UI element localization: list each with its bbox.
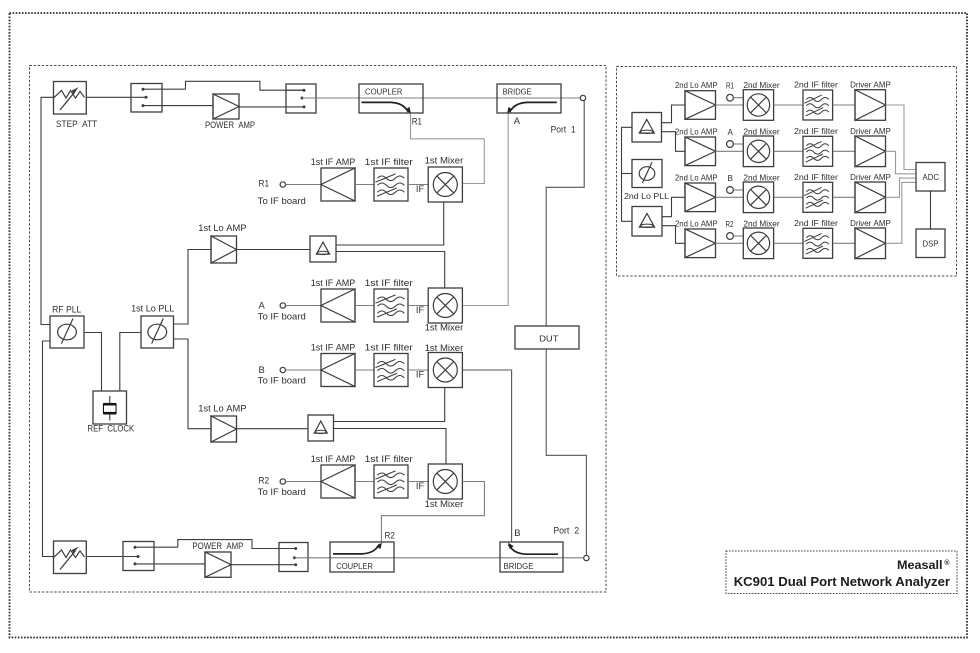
mixer 1st Mixer (A) — [428, 288, 462, 323]
switch SW1 (top, after STEP ATT) — [131, 84, 162, 113]
wire top splitter to 2nd Lo AMP R1 — [662, 105, 686, 123]
svg-text:1st Mixer: 1st Mixer — [425, 155, 464, 166]
node R1 IF output terminal — [280, 182, 285, 187]
switch SW4 (bottom, before coupler) — [279, 543, 308, 572]
amplifier 1st IF AMP (B) — [321, 354, 355, 387]
mixer 2nd Mixer (R1) — [743, 90, 773, 121]
wire top splitter to 2nd Lo AMP A — [662, 132, 686, 152]
svg-text:To IF board: To IF board — [258, 311, 306, 322]
svg-text:2nd Mixer: 2nd Mixer — [743, 219, 779, 228]
wire 1st IF filter to 1st Mixer (R2) — [408, 481, 428, 483]
svg-text:1st IF filter: 1st IF filter — [365, 453, 413, 464]
amplifier 2nd Lo AMP (R2) — [685, 229, 716, 258]
svg-text:R2: R2 — [385, 529, 395, 540]
mixer 1st Mixer (B) — [428, 353, 462, 388]
svg-text:R1: R1 — [259, 178, 270, 189]
wire 1st IF AMP to 1st IF filter (B) — [355, 369, 374, 371]
svg-text:2nd Lo AMP: 2nd Lo AMP — [675, 81, 718, 90]
mixer 2nd Mixer (A) — [743, 136, 773, 167]
wire STEP ATT to switch SW1 — [86, 96, 146, 98]
wire R1 tap to 1st mixer R1 — [411, 114, 485, 184]
wire bottom splitter to 2nd Lo AMP B — [662, 197, 685, 216]
wire R2 terminal into 2nd Mixer — [734, 235, 744, 237]
splitter 2nd LO (top) — [632, 113, 662, 143]
wire A terminal to 1st IF AMP — [286, 305, 321, 307]
node R2 IF output terminal — [280, 479, 285, 484]
wire splitter to R1 mixer LO — [336, 202, 444, 245]
svg-text:2nd IF filter: 2nd IF filter — [794, 127, 838, 136]
node B input terminal (2nd IF) — [727, 187, 734, 194]
RF board dashed enclosure (left) — [30, 66, 607, 593]
coupler (top) — [359, 84, 423, 113]
wire B terminal to 1st IF AMP — [286, 369, 321, 371]
wire 1st Lo AMP to splitter (bottom) — [237, 428, 309, 430]
svg-text:1st IF AMP: 1st IF AMP — [311, 342, 356, 353]
wire ADC to DSP — [930, 191, 932, 229]
wire 2nd Lo AMP to 2nd Mixer (B) — [716, 196, 744, 198]
wire R1 terminal into 2nd Mixer — [734, 97, 744, 99]
svg-text:Driver AMP: Driver AMP — [850, 127, 891, 136]
switch SW3 (bottom) — [123, 542, 154, 571]
wire SW3 bypass over bottom POWER AMP — [178, 540, 296, 549]
wire 1st IF AMP to 1st IF filter (R1) — [355, 184, 374, 186]
svg-text:2nd Mixer: 2nd Mixer — [743, 127, 779, 136]
svg-text:COUPLER: COUPLER — [336, 562, 373, 571]
svg-text:IF: IF — [416, 184, 425, 194]
svg-text:To IF board: To IF board — [258, 486, 306, 497]
svg-text:Measall: Measall — [897, 558, 943, 572]
wire STEP ATT input from RF PLL (left vertical) — [41, 97, 54, 324]
wire Driver AMP R1 to ADC — [886, 105, 916, 170]
wire bottom POWER AMP to SW4 — [231, 564, 296, 566]
svg-text:2nd Lo AMP: 2nd Lo AMP — [675, 127, 718, 136]
wire REF CLOCK to 1st Lo PLL — [120, 333, 141, 392]
svg-text:B: B — [728, 174, 734, 183]
svg-text:COUPLER: COUPLER — [365, 88, 403, 97]
svg-text:Driver AMP: Driver AMP — [850, 219, 891, 228]
svg-text:STEP ATT: STEP ATT — [56, 118, 97, 129]
wire 1st IF filter to 1st Mixer (R1) — [408, 184, 428, 186]
wire 2nd Mixer to 2nd IF filter (A) — [774, 150, 803, 152]
wire B mixer to bottom bridge — [462, 370, 511, 542]
svg-text:IF: IF — [416, 370, 425, 380]
svg-text:1st Mixer: 1st Mixer — [425, 342, 464, 353]
wire 2nd IF filter to Driver AMP (B) — [833, 196, 855, 198]
wire 2nd Mixer to 2nd IF filter (B) — [774, 196, 803, 198]
svg-text:2nd IF filter: 2nd IF filter — [794, 173, 838, 182]
wire 2nd IF filter to Driver AMP (R2) — [833, 242, 855, 244]
svg-text:B: B — [514, 527, 520, 538]
filter 1st IF filter (B) — [374, 354, 408, 387]
filter 2nd IF filter (B) — [803, 182, 833, 212]
amplifier 1st IF AMP (A) — [321, 289, 355, 322]
wire Driver AMP A to ADC — [886, 151, 916, 174]
DSP box — [916, 229, 945, 258]
svg-text:2nd Mixer: 2nd Mixer — [743, 81, 779, 90]
svg-text:DSP: DSP — [923, 238, 939, 248]
mixer 1st Mixer (R2) — [428, 464, 462, 499]
wire 1st Lo PLL to 1st Lo AMP (top) — [174, 250, 212, 325]
svg-text:B: B — [259, 364, 265, 375]
PLL 2nd Lo PLL — [632, 160, 662, 188]
wire 1st IF filter to 1st Mixer (A) — [408, 305, 428, 307]
amplifier POWER AMP (top) — [213, 94, 239, 119]
wire A terminal into 2nd Mixer — [734, 143, 744, 145]
svg-text:1st Mixer: 1st Mixer — [425, 322, 464, 333]
svg-text:1st Lo AMP: 1st Lo AMP — [198, 402, 246, 413]
wire splitter to R2 mixer LO — [334, 429, 447, 465]
IF board dashed enclosure (right) — [617, 67, 957, 277]
wire R1 terminal to 1st IF AMP — [286, 184, 321, 186]
svg-text:2nd Lo AMP: 2nd Lo AMP — [675, 219, 718, 228]
wire RF PLL to bottom attenuator (left vertical) — [43, 341, 54, 557]
amplifier Driver AMP (R1) — [855, 90, 886, 121]
svg-text:1st IF AMP: 1st IF AMP — [311, 277, 356, 288]
filter 1st IF filter (R1) — [374, 168, 408, 201]
wire B terminal into 2nd Mixer — [734, 189, 744, 191]
svg-text:1st IF filter: 1st IF filter — [365, 156, 413, 167]
wire bottom splitter to 2nd Lo AMP R2 — [662, 226, 685, 244]
splitter (top LO) — [310, 236, 336, 262]
bridge (bottom, Port 2) — [500, 542, 563, 572]
svg-text:®: ® — [944, 558, 950, 567]
wire splitter to B mixer LO — [334, 388, 445, 422]
wire Port1 to DUT — [546, 101, 584, 326]
amplifier 1st IF AMP (R1) — [321, 168, 355, 201]
splitter 2nd LO (bottom) — [632, 207, 662, 237]
svg-text:Port 2: Port 2 — [553, 524, 579, 535]
node A input terminal (2nd IF) — [727, 141, 734, 148]
svg-text:Driver AMP: Driver AMP — [850, 81, 891, 90]
svg-text:R2: R2 — [726, 220, 734, 229]
node R2 input terminal (2nd IF) — [727, 233, 734, 240]
svg-text:IF: IF — [416, 305, 425, 315]
svg-text:REF CLOCK: REF CLOCK — [88, 422, 135, 433]
amplifier Driver AMP (R2) — [855, 228, 886, 259]
svg-text:1st IF AMP: 1st IF AMP — [311, 453, 356, 464]
svg-text:To IF board: To IF board — [258, 195, 306, 206]
wire R2 terminal to 1st IF AMP — [286, 481, 321, 483]
switch SW2 (top, before coupler) — [286, 84, 316, 113]
svg-text:2nd Lo AMP: 2nd Lo AMP — [675, 173, 718, 182]
amplifier 2nd Lo AMP (B) — [685, 183, 716, 212]
filter 2nd IF filter (R1) — [803, 90, 833, 120]
mixer 2nd Mixer (B) — [743, 182, 773, 213]
node Port 2 connector — [584, 555, 589, 560]
amplifier Driver AMP (A) — [855, 136, 886, 167]
coupler (bottom) — [330, 542, 394, 572]
mixer 1st Mixer (R1) — [428, 167, 462, 202]
filter 1st IF filter (A) — [374, 289, 408, 322]
wire 1st IF AMP to 1st IF filter (A) — [355, 305, 374, 307]
svg-text:R1: R1 — [726, 82, 734, 91]
node A IF output terminal — [280, 303, 285, 308]
filter 2nd IF filter (A) — [803, 136, 833, 166]
attenuator STEP ATT (top) — [54, 82, 87, 115]
svg-text:A: A — [259, 300, 266, 311]
svg-text:2nd IF filter: 2nd IF filter — [794, 81, 838, 90]
mixer 2nd Mixer (R2) — [743, 228, 773, 259]
svg-text:IF: IF — [416, 481, 425, 491]
wire splitter to A mixer LO — [336, 252, 445, 289]
svg-text:1st IF filter: 1st IF filter — [365, 277, 413, 288]
wire POWER AMP to switch SW2 — [239, 106, 304, 108]
wire bottom attenuator to switch SW3 — [86, 556, 138, 558]
svg-text:2nd Lo PLL: 2nd Lo PLL — [624, 192, 669, 201]
svg-text:ADC: ADC — [923, 172, 940, 182]
svg-text:POWER AMP: POWER AMP — [192, 540, 243, 551]
wire 1st Lo AMP to splitter (top) — [237, 249, 311, 251]
wire 2nd IF filter to Driver AMP (R1) — [833, 104, 855, 106]
filter 1st IF filter (R2) — [374, 465, 408, 498]
svg-text:BRIDGE: BRIDGE — [503, 88, 532, 97]
amplifier 2nd Lo AMP (A) — [685, 137, 716, 166]
amplifier 2nd Lo AMP (R1) — [685, 91, 716, 120]
wire 1st IF AMP to 1st IF filter (R2) — [355, 481, 374, 483]
svg-text:R1: R1 — [412, 116, 422, 127]
wire 2nd Lo AMP to 2nd Mixer (A) — [716, 150, 744, 152]
amplifier Driver AMP (B) — [855, 182, 886, 213]
wire 1st Lo PLL to 1st Lo AMP (bottom) — [174, 339, 212, 429]
wire 2nd IF filter to Driver AMP (A) — [833, 150, 855, 152]
wire main line SW2-COUPLER-BRIDGE-Port1 — [302, 97, 580, 99]
svg-text:DUT: DUT — [539, 333, 559, 343]
wire RF PLL to REF CLOCK — [84, 333, 102, 392]
svg-text:Port 1: Port 1 — [551, 124, 576, 135]
svg-text:POWER AMP: POWER AMP — [205, 119, 255, 130]
crystal REF CLOCK — [93, 391, 127, 424]
node B IF output terminal — [280, 367, 285, 372]
svg-text:1st Lo PLL: 1st Lo PLL — [131, 303, 174, 314]
wire Driver AMP R2 to ADC — [886, 182, 916, 243]
amplifier 1st IF AMP (R2) — [321, 465, 355, 498]
amplifier 1st Lo AMP (bottom) — [211, 416, 237, 442]
amplifier POWER AMP (bottom) — [205, 552, 231, 577]
svg-text:2nd Mixer: 2nd Mixer — [743, 173, 779, 182]
wire 2nd Mixer to 2nd IF filter (R1) — [774, 104, 803, 106]
filter 2nd IF filter (R2) — [803, 228, 833, 258]
amplifier 1st Lo AMP (top) — [211, 236, 237, 263]
node Port 1 connector — [580, 95, 585, 100]
svg-text:1st Mixer: 1st Mixer — [425, 498, 464, 509]
PLL 1st Lo PLL — [141, 316, 174, 348]
attenuator (bottom step attenuator) — [54, 541, 87, 574]
wire Driver AMP B to ADC — [886, 178, 916, 197]
svg-text:1st IF AMP: 1st IF AMP — [311, 156, 356, 167]
wire R2 mixer to bottom coupler — [381, 482, 484, 543]
svg-text:A: A — [728, 128, 734, 137]
svg-text:Driver AMP: Driver AMP — [850, 173, 891, 182]
node R1 input terminal (2nd IF) — [727, 94, 734, 101]
splitter (bottom LO) — [308, 415, 334, 441]
wire A tap to 1st mixer A — [463, 114, 508, 306]
bridge (top, Port 1) — [497, 84, 561, 113]
svg-text:1st Lo AMP: 1st Lo AMP — [198, 222, 246, 233]
wire DUT to Port2 — [546, 349, 586, 555]
wire main line SW4-COUPLER-BRIDGE-Port2 — [294, 557, 583, 559]
wire 2nd Lo AMP to 2nd Mixer (R2) — [716, 242, 744, 244]
svg-text:RF PLL: RF PLL — [52, 303, 81, 314]
svg-text:BRIDGE: BRIDGE — [504, 562, 535, 571]
wire 2nd Lo AMP to 2nd Mixer (R1) — [716, 104, 744, 106]
svg-text:1st IF filter: 1st IF filter — [365, 342, 413, 353]
DUT box — [515, 326, 579, 349]
svg-text:2nd IF filter: 2nd IF filter — [794, 219, 838, 228]
PLL RF PLL — [50, 316, 84, 348]
svg-text:To IF board: To IF board — [258, 375, 306, 386]
wire SW1 bypass over POWER AMP — [186, 81, 305, 90]
title dashed box — [726, 551, 957, 594]
wire 1st IF filter to 1st Mixer (B) — [408, 369, 428, 371]
wire 2nd Mixer to 2nd IF filter (R2) — [774, 242, 803, 244]
svg-text:KC901 Dual Port Network Analyz: KC901 Dual Port Network Analyzer — [734, 574, 950, 589]
wire 2nd Lo PLL distribution bus — [622, 127, 633, 221]
ADC box — [916, 163, 945, 192]
svg-text:A: A — [514, 115, 521, 126]
svg-text:R2: R2 — [259, 475, 270, 486]
